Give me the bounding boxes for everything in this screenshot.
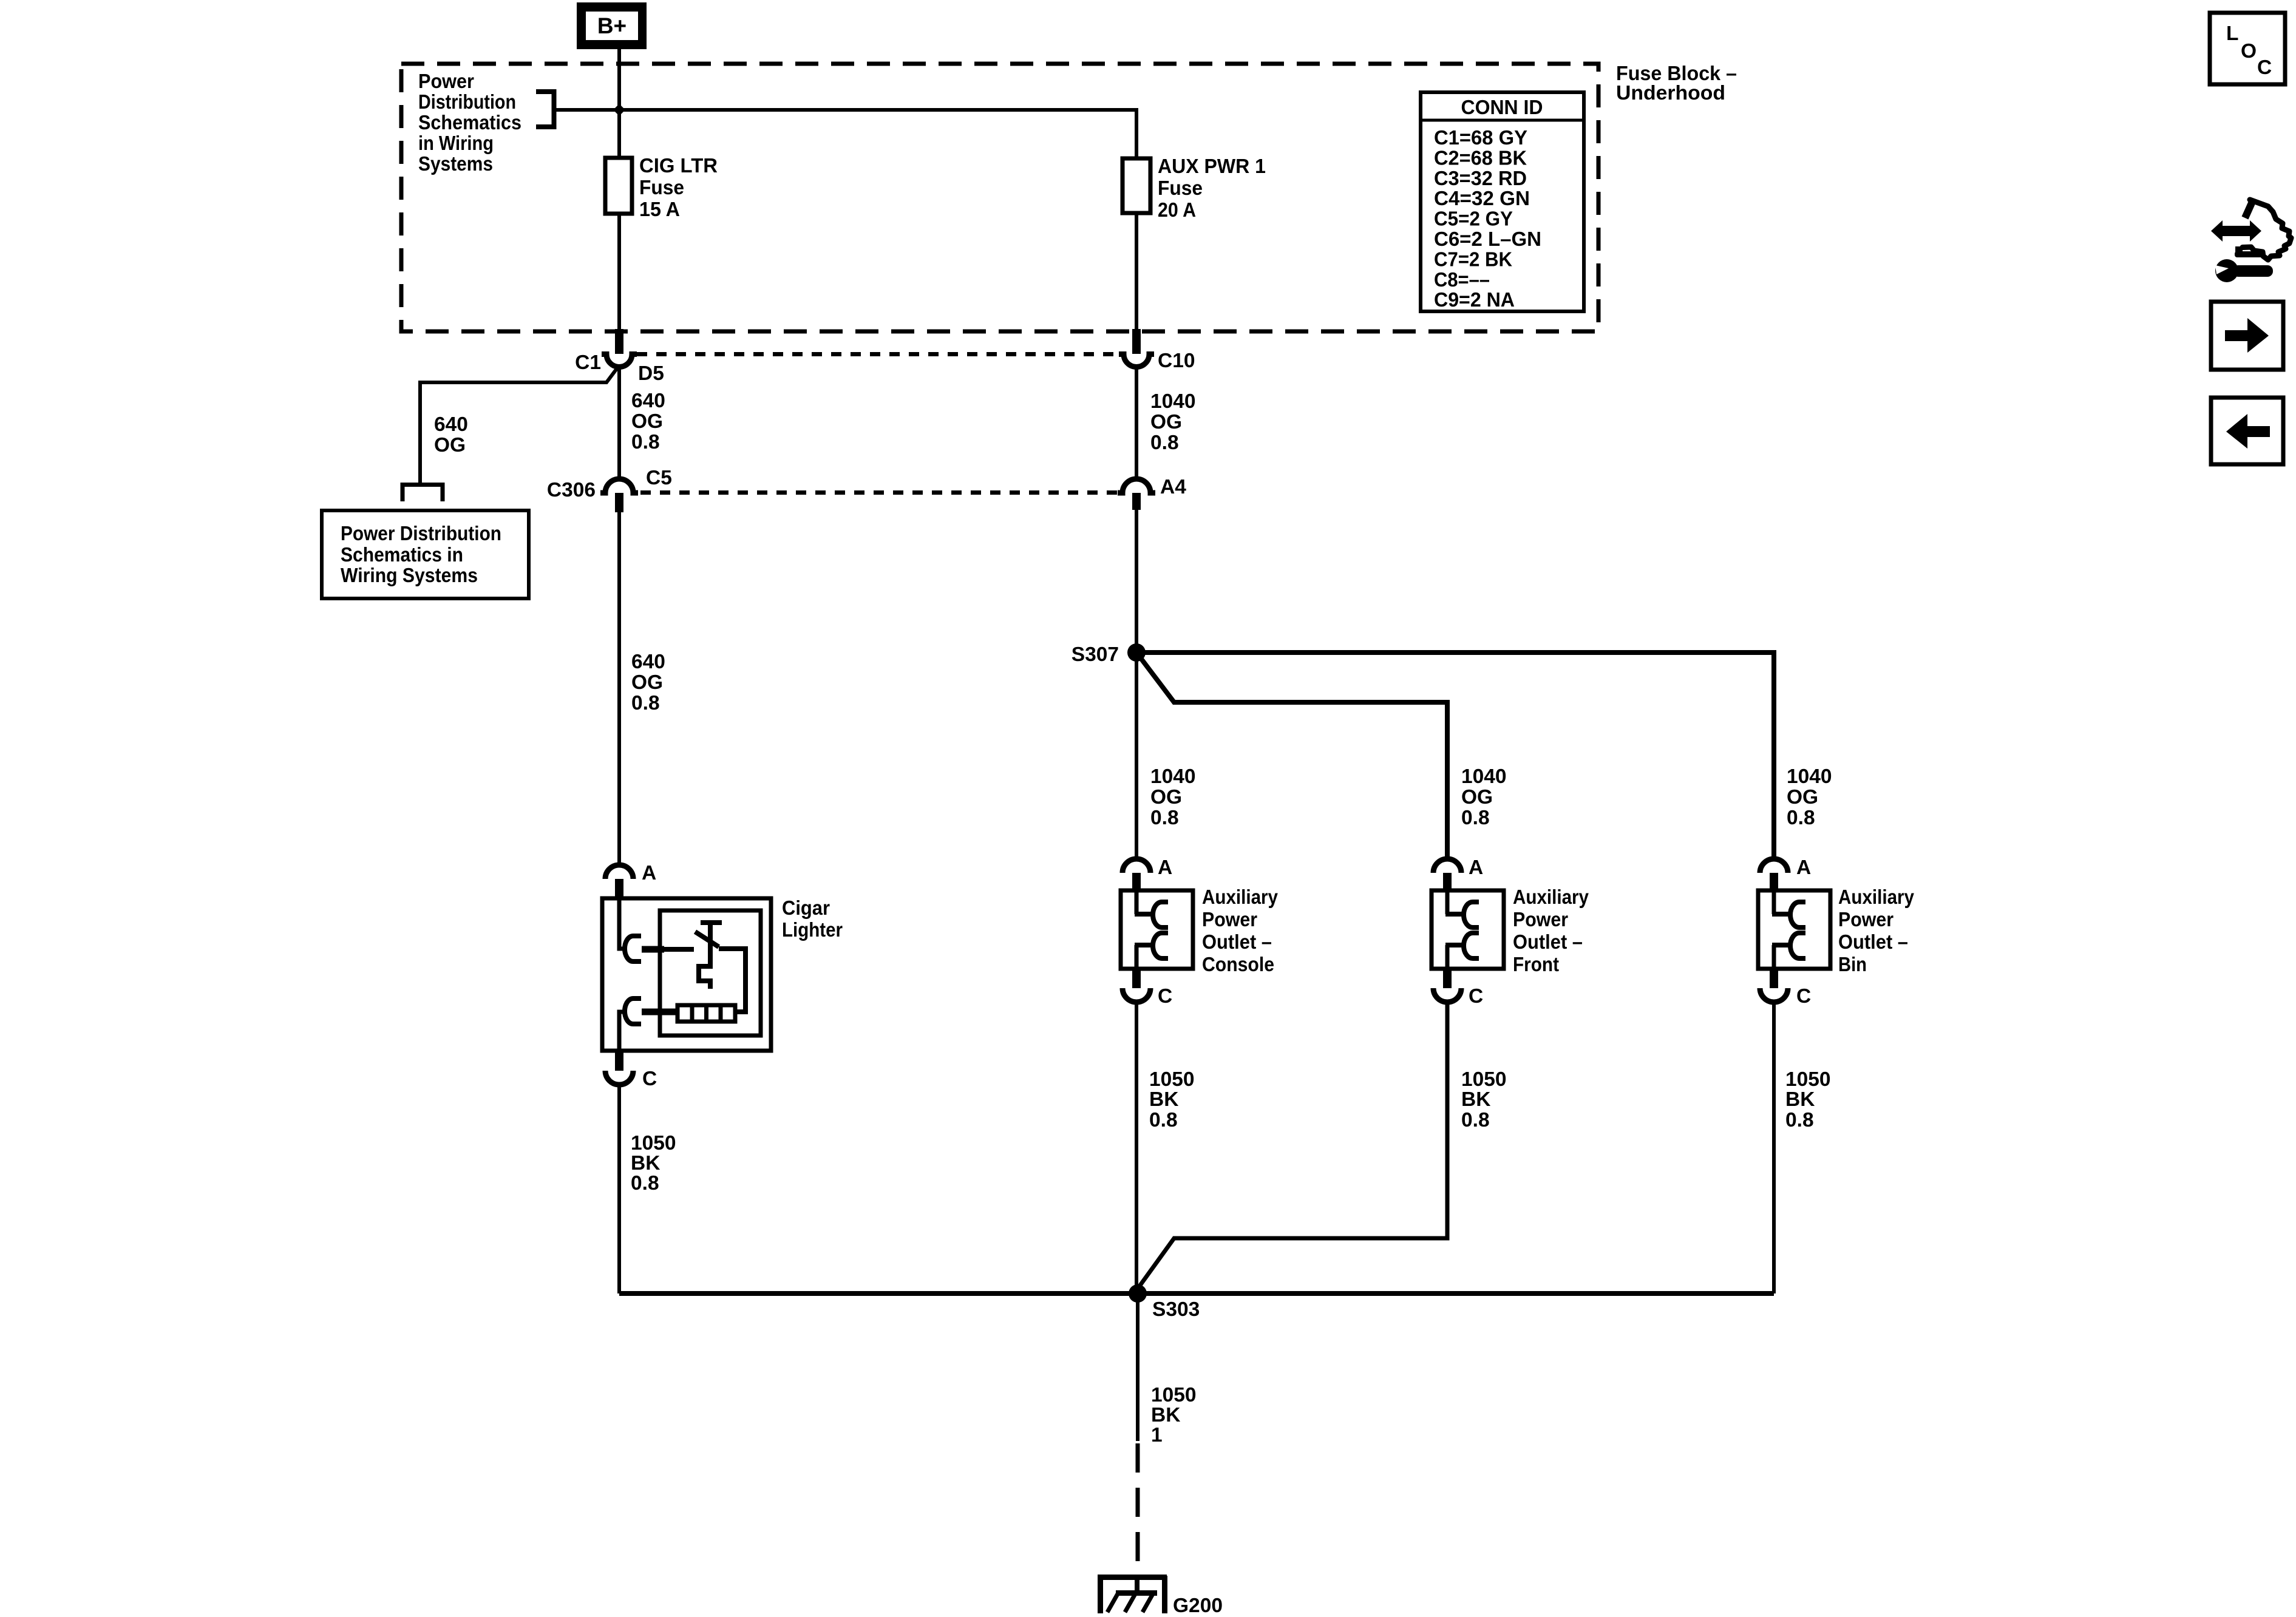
bin outlet upper pin bar <box>1772 912 1792 917</box>
wire bracket to AUX PWR 1 fuse <box>556 110 1136 158</box>
connector C5 pin stub <box>615 493 623 512</box>
bin outlet A pin stub <box>1770 873 1778 890</box>
svg-text:C9=2 NA: C9=2 NA <box>1434 289 1515 311</box>
svg-text:Bin: Bin <box>1838 954 1867 976</box>
svg-text:Power: Power <box>418 70 474 93</box>
svg-text:in Wiring: in Wiring <box>418 132 494 155</box>
svg-text:A: A <box>1469 856 1483 879</box>
bin outlet C cup arc <box>1760 988 1788 1002</box>
front outlet upper pin bar <box>1445 912 1466 917</box>
bin outlet box <box>1758 890 1830 969</box>
front outlet C cup arc <box>1433 988 1461 1002</box>
wire front outlet C to S303 <box>1138 1002 1447 1289</box>
cigar lighter C cup arc <box>605 1071 633 1085</box>
splice S307 <box>1127 643 1146 662</box>
svg-text:Distribution: Distribution <box>418 91 516 114</box>
front outlet C pin stub <box>1443 969 1452 988</box>
console outlet C pin stub <box>1132 969 1141 988</box>
svg-text:1050: 1050 <box>1151 1384 1197 1406</box>
wire console outlet C to S303 <box>1135 1002 1138 1293</box>
svg-text:Auxiliary: Auxiliary <box>1513 886 1589 909</box>
connector A4 dome arc <box>1118 479 1155 493</box>
backward reference arrow box <box>2211 398 2283 464</box>
svg-text:1050: 1050 <box>1785 1068 1831 1091</box>
wire B+ to CIG LTR fuse <box>617 49 621 158</box>
cigar lighter switch blade <box>695 932 719 947</box>
svg-text:C8=––: C8=–– <box>1434 269 1490 291</box>
connector C1 arc <box>602 354 637 367</box>
svg-text:C: C <box>642 1068 657 1090</box>
cigar lighter heater block <box>678 1005 735 1022</box>
console outlet feed wire <box>1135 890 1139 914</box>
svg-text:BK: BK <box>631 1152 660 1175</box>
svg-text:0.8: 0.8 <box>1461 1109 1490 1131</box>
svg-text:C: C <box>1796 985 1811 1008</box>
cigar lighter wire to switch <box>662 947 694 952</box>
svg-text:1040: 1040 <box>1150 765 1196 788</box>
console outlet upper contact <box>1153 902 1168 927</box>
dotted harness line C1-C10 <box>637 352 1119 356</box>
svg-text:C2=68 BK: C2=68 BK <box>1434 147 1527 169</box>
svg-text:C: C <box>1469 985 1483 1008</box>
bin outlet A dome arc <box>1760 859 1788 873</box>
svg-text:C: C <box>1158 985 1172 1008</box>
off-page bracket to power distribution box <box>402 485 443 502</box>
svg-text:C1=68 GY: C1=68 GY <box>1434 127 1527 149</box>
svg-text:Power Distribution: Power Distribution <box>341 523 501 545</box>
wire A4 upper <box>1135 367 1138 478</box>
svg-text:A: A <box>1158 856 1172 879</box>
bin outlet C pin stub <box>1770 969 1778 988</box>
svg-text:OG: OG <box>631 410 663 433</box>
svg-text:0.8: 0.8 <box>1149 1109 1178 1131</box>
bin outlet feed wire <box>1772 890 1776 914</box>
wire S307 to front outlet <box>1136 653 1447 859</box>
connector C10 arc <box>1119 354 1154 367</box>
svg-text:Outlet –: Outlet – <box>1202 931 1272 954</box>
bin outlet upper contact <box>1790 902 1805 927</box>
svg-text:OG: OG <box>1150 786 1182 808</box>
svg-text:Auxiliary: Auxiliary <box>1838 886 1914 909</box>
svg-text:Cigar: Cigar <box>782 897 830 920</box>
svg-text:0.8: 0.8 <box>1785 1109 1814 1131</box>
service icon wrench <box>2215 259 2273 282</box>
dotted harness line C5-A4 <box>640 490 1119 495</box>
svg-text:Auxiliary: Auxiliary <box>1202 886 1278 909</box>
service icon diagonal bar <box>2245 200 2253 218</box>
svg-text:640: 640 <box>434 413 468 436</box>
connector C10 pin stub <box>1132 329 1141 354</box>
ground G200 symbol <box>1098 1576 1167 1613</box>
service icon double arrow <box>2211 220 2261 242</box>
bracket off-page reference (power distribution schematics) <box>536 92 554 127</box>
svg-text:L: L <box>2226 22 2238 45</box>
svg-text:S303: S303 <box>1152 1298 1200 1321</box>
cigar lighter switch to element link <box>719 949 746 1012</box>
svg-text:C4=32 GN: C4=32 GN <box>1434 188 1530 210</box>
svg-text:Schematics in: Schematics in <box>341 544 463 566</box>
service icon panel outline <box>2243 200 2291 260</box>
svg-text:0.8: 0.8 <box>1461 807 1490 829</box>
front outlet lower contact <box>1464 933 1479 958</box>
cigar lighter heater dividers <box>692 1005 721 1022</box>
svg-text:BK: BK <box>1461 1088 1490 1111</box>
wire CIG fuse to C1 <box>617 214 621 329</box>
CONN ID table box <box>1421 92 1584 311</box>
svg-text:OG: OG <box>631 671 663 694</box>
front outlet lower pin bar <box>1445 943 1466 947</box>
wire C5 to cigar lighter A <box>617 512 621 865</box>
svg-text:Wiring Systems: Wiring Systems <box>341 564 478 587</box>
wire cigar lighter C to ground bus <box>617 1084 621 1293</box>
svg-text:S307: S307 <box>1072 643 1119 666</box>
svg-text:1040: 1040 <box>1461 765 1507 788</box>
svg-text:G200: G200 <box>1173 1595 1223 1617</box>
fuse block - underhood dashed box <box>401 64 1598 331</box>
svg-text:1040: 1040 <box>1150 390 1196 413</box>
front outlet upper contact <box>1464 902 1479 927</box>
wire S307 to bin outlet <box>1136 653 1774 859</box>
forward arrow <box>2225 318 2269 353</box>
svg-text:BK: BK <box>1151 1404 1180 1426</box>
svg-text:Schematics: Schematics <box>418 112 521 134</box>
svg-text:CIG LTR: CIG LTR <box>639 155 718 177</box>
ground bus wire <box>619 1291 1774 1296</box>
svg-text:Power: Power <box>1838 909 1894 931</box>
cigar lighter element stem with jog <box>699 937 710 989</box>
svg-text:Systems: Systems <box>418 153 493 175</box>
svg-text:1: 1 <box>1151 1424 1163 1446</box>
svg-text:0.8: 0.8 <box>631 692 660 714</box>
svg-text:0.8: 0.8 <box>1150 807 1179 829</box>
svg-text:1050: 1050 <box>631 1132 676 1154</box>
svg-text:Fuse: Fuse <box>1158 177 1203 200</box>
console outlet A dome arc <box>1123 859 1150 873</box>
junction node at B+ feed <box>613 104 625 116</box>
svg-text:640: 640 <box>631 390 665 412</box>
svg-text:1050: 1050 <box>1461 1068 1507 1091</box>
backward arrow <box>2226 414 2270 449</box>
wire bin outlet C to ground bus <box>1772 1002 1776 1293</box>
svg-text:0.8: 0.8 <box>1787 807 1815 829</box>
svg-text:OG: OG <box>434 434 466 456</box>
console outlet return wire <box>1135 945 1139 969</box>
svg-text:OG: OG <box>1461 786 1493 808</box>
connector C1 pin stub <box>615 329 623 354</box>
svg-text:Fuse: Fuse <box>639 177 684 199</box>
cigar lighter lower pin bar <box>642 1009 679 1015</box>
service icon thumb bar <box>2235 246 2263 257</box>
svg-text:OG: OG <box>1150 411 1182 433</box>
svg-text:Underhood: Underhood <box>1616 82 1725 104</box>
svg-text:C: C <box>2257 56 2272 79</box>
forward reference arrow box <box>2211 302 2283 370</box>
cigar lighter upper socket contact <box>625 936 641 961</box>
console outlet lower pin bar <box>1135 943 1155 947</box>
console outlet A pin stub <box>1132 873 1141 890</box>
svg-text:Outlet –: Outlet – <box>1513 931 1583 954</box>
resistor fuse AUX PWR 1 20A <box>1123 158 1150 213</box>
front outlet box <box>1432 890 1504 969</box>
svg-text:C5=2 GY: C5=2 GY <box>1434 208 1513 231</box>
svg-text:BK: BK <box>1149 1088 1178 1111</box>
cigar lighter A pin stub <box>615 879 623 898</box>
resistor fuse CIG LTR 15A <box>605 158 632 214</box>
console outlet lower contact <box>1153 933 1168 958</box>
console outlet box <box>1121 890 1193 969</box>
svg-text:640: 640 <box>631 651 665 673</box>
power distribution schematics reference box <box>322 510 529 598</box>
svg-text:Front: Front <box>1513 954 1559 976</box>
svg-text:A: A <box>1796 856 1811 879</box>
svg-text:Outlet –: Outlet – <box>1838 931 1908 954</box>
cigar lighter C pin stub <box>615 1051 623 1071</box>
cigar lighter A dome arc <box>605 865 633 879</box>
wire AUX fuse to C10 <box>1135 213 1138 329</box>
svg-text:0.8: 0.8 <box>631 1172 659 1195</box>
front outlet feed wire <box>1445 890 1450 914</box>
connector A4 pin stub <box>1132 493 1141 510</box>
CONN ID header rule <box>1421 119 1584 122</box>
svg-text:C7=2 BK: C7=2 BK <box>1434 248 1512 271</box>
svg-text:O: O <box>2241 40 2257 63</box>
svg-text:B+: B+ <box>597 13 627 38</box>
console outlet C cup arc <box>1123 988 1150 1002</box>
front outlet A dome arc <box>1433 859 1461 873</box>
svg-text:1050: 1050 <box>1149 1068 1195 1091</box>
cigar lighter upper pin bar <box>642 946 664 953</box>
svg-text:CONN ID: CONN ID <box>1461 97 1543 119</box>
cigar lighter switch T terminal <box>701 923 722 937</box>
wire C1 to branch corner <box>420 365 619 483</box>
cigar lighter return wire inside <box>619 1012 626 1051</box>
bin outlet lower pin bar <box>1772 943 1792 947</box>
svg-text:0.8: 0.8 <box>631 431 660 453</box>
svg-text:15 A: 15 A <box>639 198 680 221</box>
svg-text:D5: D5 <box>638 362 664 385</box>
svg-text:20 A: 20 A <box>1158 199 1196 222</box>
B+ terminal box <box>577 2 647 49</box>
svg-text:C6=2 L–GN: C6=2 L–GN <box>1434 228 1541 251</box>
splice S303 <box>1129 1284 1147 1303</box>
svg-text:OG: OG <box>1787 786 1818 808</box>
wire C1 to C5 <box>617 367 621 477</box>
cigar lighter outer box <box>602 898 771 1051</box>
svg-text:0.8: 0.8 <box>1150 432 1179 454</box>
wire A4 to S307 to console outlet A <box>1135 510 1138 859</box>
cigar lighter lower socket contact <box>625 998 641 1024</box>
svg-text:Power: Power <box>1513 909 1568 931</box>
svg-text:Lighter: Lighter <box>782 919 843 941</box>
bin outlet return wire <box>1772 945 1776 969</box>
dashed wire to G200 <box>1136 1443 1140 1575</box>
svg-text:Console: Console <box>1202 954 1274 976</box>
LOC reference box <box>2210 13 2285 84</box>
cigar lighter feed wire inside <box>619 898 626 949</box>
svg-text:C3=32 RD: C3=32 RD <box>1434 168 1527 190</box>
connector C5 dome arc <box>600 479 638 493</box>
console outlet upper pin bar <box>1135 912 1155 917</box>
svg-text:C306: C306 <box>547 479 596 501</box>
svg-text:BK: BK <box>1785 1088 1815 1111</box>
svg-text:AUX PWR 1: AUX PWR 1 <box>1158 155 1266 178</box>
svg-text:C5: C5 <box>646 467 672 489</box>
wire S303 to ground lead <box>1136 1293 1140 1441</box>
svg-text:A: A <box>642 862 656 884</box>
svg-text:Power: Power <box>1202 909 1257 931</box>
svg-text:A4: A4 <box>1160 476 1186 498</box>
cigar lighter inner box <box>660 910 761 1036</box>
front outlet return wire <box>1445 945 1450 969</box>
svg-text:C1: C1 <box>575 351 601 374</box>
svg-text:C10: C10 <box>1158 350 1195 372</box>
front outlet A pin stub <box>1443 873 1452 890</box>
bin outlet lower contact <box>1790 933 1805 958</box>
svg-text:1040: 1040 <box>1787 765 1832 788</box>
